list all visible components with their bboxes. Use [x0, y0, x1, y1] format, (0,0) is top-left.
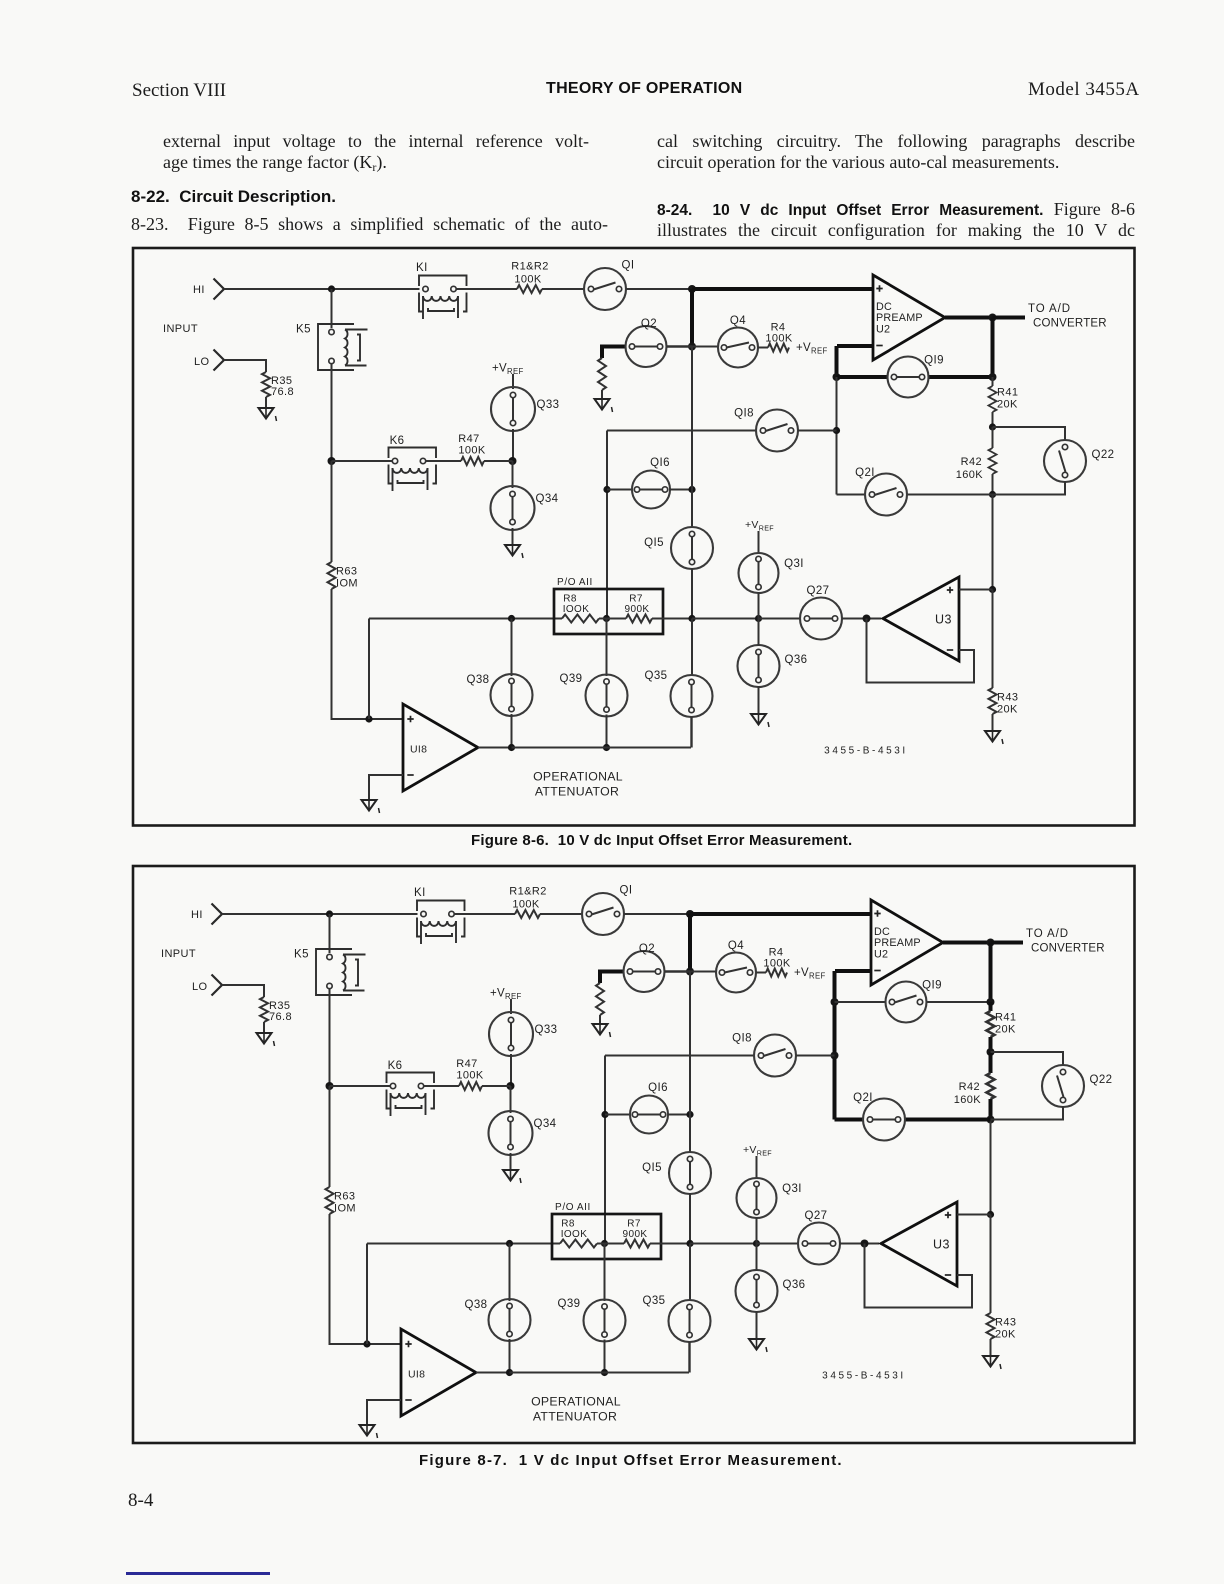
wire R47 to node — [484, 460, 513, 462]
wire R41 to node — [989, 1037, 993, 1052]
svg-text:R1&R2: R1&R2 — [511, 261, 548, 273]
resistor R1&R2 100K — [509, 886, 546, 919]
wire R1R2 to Q1 — [540, 913, 582, 915]
ground below Q2 — [595, 399, 613, 412]
wire Q19 to rail thin — [927, 1001, 991, 1003]
resistor R35 76.8 — [262, 372, 294, 398]
wire Q39 bottom — [606, 715, 608, 748]
wire Q22 top branch — [993, 427, 1066, 441]
svg-text:TO A/D: TO A/D — [1026, 928, 1069, 940]
svg-text:R41: R41 — [997, 387, 1018, 399]
wire VREF to Q33 — [510, 999, 512, 1014]
wire Q31 to line — [756, 1217, 758, 1244]
svg-text:100K: 100K — [456, 1070, 484, 1082]
junction R8/R7/Q39 — [603, 615, 610, 622]
junction Q2/Q4 — [686, 968, 694, 976]
svg-text:R63: R63 — [334, 1191, 355, 1203]
junction Q16 left — [603, 486, 610, 493]
svg-text:KI: KI — [414, 887, 426, 899]
wire rail Q19 to R41 — [989, 1002, 993, 1011]
wire Q38 bottom — [509, 1339, 511, 1373]
svg-text:Q38: Q38 — [465, 1299, 488, 1311]
svg-text:R8: R8 — [561, 1219, 575, 1230]
svg-text:IOOK: IOOK — [561, 1229, 588, 1240]
resistor R41 20K — [987, 1011, 1017, 1037]
net +VREF above Q33 — [490, 988, 522, 1002]
wire Q2 ground stub — [602, 347, 626, 359]
junction R47/Q33/Q34 — [509, 457, 517, 465]
wire bold down to Q2/Q4 row — [690, 289, 694, 347]
junction Q38 top — [508, 615, 515, 622]
svg-text:+VREF: +VREF — [794, 967, 826, 981]
junction K5/K6/R63 — [328, 457, 336, 465]
wire rail to U3 plus — [990, 1120, 992, 1215]
transistor switch Q34 — [489, 1111, 557, 1155]
junction HI rail — [686, 910, 694, 918]
wire x607 vertical — [604, 1056, 606, 1244]
svg-text:OPERATIONAL: OPERATIONAL — [531, 1395, 621, 1409]
svg-text:U2: U2 — [874, 949, 888, 961]
transistor switch Q27 — [798, 1210, 840, 1265]
svg-text:P/O AII: P/O AII — [557, 577, 593, 588]
wire Q16 right — [670, 489, 692, 491]
junction x836 Q18 — [833, 427, 840, 434]
transistor switch Q18 — [732, 1033, 796, 1077]
transistor switch Q31 — [737, 1178, 802, 1218]
junction U3 output — [861, 1240, 869, 1248]
transistor switch Q18 — [734, 408, 798, 452]
resistor below Q2 — [596, 983, 604, 1015]
svg-text:100K: 100K — [458, 445, 486, 457]
svg-text:R7: R7 — [627, 1219, 641, 1230]
junction Q16/Q15 — [686, 1111, 693, 1118]
wire bold to Q19 — [837, 375, 889, 379]
node INPUT label — [161, 948, 196, 960]
wire Q22 bottom branch — [993, 481, 1066, 495]
svg-text:Q27: Q27 — [807, 585, 830, 597]
wire K1 to R1R2 — [457, 288, 518, 290]
wire Q35 top — [691, 619, 693, 676]
ground at R35 — [257, 1033, 275, 1046]
wire K5 bottom to K6 node — [331, 364, 333, 461]
wire U3 feedback — [867, 619, 975, 683]
svg-text:QI6: QI6 — [648, 1082, 668, 1094]
net TO A/D CONVERTER — [1028, 303, 1107, 330]
wire x607 vertical — [606, 431, 608, 619]
transistor switch Q16 — [632, 457, 670, 509]
resistor R35 76.8 — [260, 997, 292, 1023]
svg-text:ATTENUATOR: ATTENUATOR — [535, 785, 619, 799]
op-amp U3 — [881, 1202, 957, 1286]
wire Q16 right — [668, 1114, 690, 1116]
relay K6 — [387, 1060, 435, 1116]
junction R41/Q22 — [987, 1048, 995, 1056]
wire attenuator line left — [369, 618, 562, 620]
wire Q38 top — [511, 619, 513, 677]
wire R43 to ground — [990, 1339, 992, 1356]
transistor switch Q39 — [558, 1298, 626, 1342]
svg-text:QI9: QI9 — [924, 355, 944, 367]
net +VREF above Q31 — [743, 1144, 772, 1158]
wire rail to R43 — [990, 1215, 992, 1314]
wire Q36 top — [758, 619, 760, 647]
junction R42/Q21/Q22 — [989, 491, 996, 498]
label drawing number — [824, 746, 908, 757]
transistor switch Q36 — [736, 1270, 806, 1312]
svg-text:INPUT: INPUT — [161, 948, 196, 960]
svg-text:Q36: Q36 — [785, 654, 808, 666]
wire K1 to R1R2 — [455, 913, 516, 915]
transistor switch Q31 — [739, 553, 804, 593]
junction Q31/Q36 — [753, 1240, 760, 1247]
svg-text:K6: K6 — [388, 1060, 403, 1072]
junction HI/K5 — [326, 910, 333, 917]
resistor R63 10M — [328, 562, 358, 590]
wire U18 minus to ground — [367, 1400, 401, 1425]
wire Q2 to junction — [665, 970, 691, 973]
svg-text:PREAMP: PREAMP — [876, 312, 923, 324]
wire K6 row left — [332, 460, 393, 462]
wire Q19 row thin — [835, 1001, 887, 1003]
relay K5 — [294, 949, 366, 996]
wire to ground below Q2 — [599, 1015, 601, 1024]
wire Q18 to x836 — [796, 1055, 835, 1057]
wire bold U2 minus elbow — [835, 346, 839, 377]
svg-text:TO A/D: TO A/D — [1028, 303, 1071, 315]
ground at R43 — [983, 1356, 1001, 1369]
wire bold to U2 plus input — [692, 287, 873, 291]
svg-text:Q22: Q22 — [1092, 449, 1115, 461]
svg-text:Q2: Q2 — [641, 318, 657, 330]
svg-text:P/O AII: P/O AII — [555, 1202, 591, 1213]
wire K5 top — [331, 289, 333, 328]
wire Q4 to R4 — [756, 972, 766, 974]
svg-text:100K: 100K — [512, 899, 540, 911]
wire U18 output — [478, 747, 512, 749]
wire Q36 to ground — [758, 686, 760, 714]
wire attenuator to Q31 node — [690, 1243, 757, 1245]
wire Q39 top — [604, 1244, 606, 1302]
op-amp U2 DC PREAMP — [871, 900, 943, 985]
svg-text:K5: K5 — [294, 949, 309, 961]
svg-text:R41: R41 — [995, 1012, 1016, 1024]
wire U18 output — [476, 1372, 510, 1374]
junction Q16 left — [601, 1111, 608, 1118]
wire bold down to Q2/Q4 row — [688, 914, 692, 972]
svg-text:R43: R43 — [995, 1317, 1016, 1329]
wire Q15 to attenuator line — [691, 568, 693, 619]
svg-text:KI: KI — [416, 262, 428, 274]
wire Q22 top branch — [991, 1052, 1064, 1066]
transistor switch Q35 — [645, 670, 713, 717]
wire Q2 ground stub — [600, 972, 624, 984]
transistor switch Q2 — [626, 318, 667, 367]
transistor switch Q1 — [582, 885, 632, 936]
svg-text:U3: U3 — [933, 1238, 950, 1252]
svg-text:R42: R42 — [961, 456, 982, 468]
wire Q31 to line — [758, 592, 760, 619]
resistor R4 100K — [763, 947, 791, 977]
resistor R42 160K — [954, 1073, 995, 1106]
svg-text:+VREF: +VREF — [796, 342, 828, 356]
transistor switch Q4 — [718, 315, 758, 368]
wire node to Q34 — [512, 461, 514, 488]
svg-text:K5: K5 — [296, 324, 311, 336]
junction R41/Q22 — [989, 423, 996, 430]
junction x836 Q21 corner — [833, 1118, 835, 1120]
wire U2 output — [945, 316, 993, 320]
svg-text:Q4: Q4 — [730, 315, 746, 327]
junction Q16/Q15 — [688, 486, 695, 493]
wire bold Q19 to rail — [929, 375, 993, 379]
svg-text:Q27: Q27 — [805, 1210, 828, 1222]
svg-text:IOM: IOM — [334, 1203, 356, 1215]
junction R8/R7/Q39 — [601, 1240, 608, 1247]
ground below Q36 — [749, 1339, 767, 1352]
junction attenuator/Q15/Q35 — [686, 1240, 693, 1247]
transistor switch Q34 — [491, 486, 559, 530]
svg-text:100K: 100K — [763, 958, 791, 970]
net +VREF above Q33 — [492, 363, 524, 377]
svg-text:K6: K6 — [390, 435, 405, 447]
wire Q18 row left — [605, 1055, 754, 1057]
svg-text:Q35: Q35 — [645, 670, 668, 682]
transistor switch Q16 — [630, 1082, 668, 1134]
svg-text:Q35: Q35 — [643, 1295, 666, 1307]
wire Q21 row left — [837, 494, 866, 496]
svg-text:QI: QI — [620, 885, 633, 897]
transistor switch Q27 — [800, 585, 842, 640]
wire R63 to U18 plus — [330, 1214, 402, 1344]
node INPUT label — [163, 323, 198, 335]
junction Q39 output — [603, 744, 610, 751]
junction U2 output — [989, 314, 997, 322]
svg-text:Q33: Q33 — [535, 1024, 558, 1036]
ground at R35 — [259, 408, 277, 421]
wire R1R2 to Q1 — [542, 288, 584, 290]
label OPERATIONAL ATTENUATOR — [531, 1395, 621, 1424]
wire rail Q19 to R41 — [992, 377, 994, 386]
wire R41 to node — [992, 412, 994, 427]
wire U2 minus input — [835, 969, 871, 973]
svg-text:QI5: QI5 — [642, 1162, 662, 1174]
svg-text:OPERATIONAL: OPERATIONAL — [533, 770, 623, 784]
transistor switch Q15 — [644, 527, 713, 569]
wire R35 to ground — [265, 397, 267, 408]
svg-text:QI8: QI8 — [732, 1033, 752, 1045]
wire output to A/D — [991, 941, 1024, 945]
node LO input terminal — [192, 975, 222, 996]
wire to ground below Q2 — [601, 390, 603, 399]
svg-text:76.8: 76.8 — [269, 1011, 292, 1023]
wire to Q27 — [757, 1243, 799, 1245]
net +VREF at R4 — [794, 967, 826, 981]
wire R35 to ground — [263, 1022, 265, 1033]
svg-text:Q33: Q33 — [537, 399, 560, 411]
wire to Q15 — [691, 490, 693, 529]
wire node to Q34 — [510, 1086, 512, 1113]
junction R47/Q33/Q34 — [507, 1082, 515, 1090]
svg-text:R1&R2: R1&R2 — [509, 886, 546, 898]
ground at U18 — [360, 1425, 378, 1438]
ground below Q34 — [505, 545, 523, 558]
junction attenuator/Q15/Q35 — [688, 615, 695, 622]
transistor switch Q2 — [624, 943, 665, 992]
node LO input terminal — [194, 350, 224, 371]
wire junction to Q4 — [692, 346, 718, 348]
wire Q21 row right — [907, 494, 993, 496]
svg-text:IOOK: IOOK — [563, 604, 590, 615]
svg-text:20K: 20K — [997, 399, 1018, 411]
junction HI/K5 — [328, 285, 335, 292]
svg-text:100K: 100K — [765, 333, 793, 345]
svg-text:UI8: UI8 — [408, 1369, 425, 1381]
svg-text:Q2: Q2 — [639, 943, 655, 955]
svg-text:+VREF: +VREF — [743, 1144, 772, 1158]
junction R42/Q21/Q22 — [987, 1116, 995, 1124]
svg-text:QI8: QI8 — [734, 408, 754, 420]
wire junction to Q4 — [690, 971, 716, 973]
net +VREF at R4 — [796, 342, 828, 356]
module P/O A11 box — [554, 577, 663, 634]
resistor R43 20K — [989, 688, 1019, 716]
junction Q38 top — [506, 1240, 513, 1247]
svg-text:LO: LO — [194, 356, 210, 368]
wire K5 top — [329, 914, 331, 953]
resistor R63 10M — [326, 1187, 356, 1215]
wire K6 row left — [330, 1085, 391, 1087]
wire Q1 to node — [624, 913, 690, 915]
op-amp U2 DC PREAMP — [873, 275, 945, 360]
wire U2 output — [943, 941, 991, 945]
svg-text:900K: 900K — [623, 1229, 648, 1240]
node HI input terminal — [193, 279, 224, 300]
ground below Q36 — [751, 714, 769, 727]
wire U3 plus to rail — [957, 1214, 991, 1216]
svg-text:Q3I: Q3I — [784, 558, 804, 570]
junction attenuator tap — [365, 715, 372, 722]
op-amp U18 — [401, 1329, 476, 1416]
wire attenuator tap vertical — [368, 619, 370, 720]
transistor switch Q35 — [643, 1295, 711, 1342]
svg-text:3455-B-453I: 3455-B-453I — [824, 746, 908, 757]
svg-text:Q4: Q4 — [728, 940, 744, 952]
ground below Q2 — [593, 1024, 611, 1037]
wire Q39 bottom — [604, 1340, 606, 1373]
wire bold Q21 row right — [905, 1118, 991, 1122]
ground at R43 — [985, 731, 1003, 744]
svg-text:20K: 20K — [997, 704, 1018, 716]
wire U18 minus to ground — [369, 775, 403, 800]
resistor R42 160K — [956, 448, 997, 481]
module P/O A11 box — [552, 1202, 661, 1259]
junction Q2/Q4 — [688, 343, 696, 351]
op-amp U3 — [883, 577, 959, 661]
wire bold Q21 row left — [835, 1118, 864, 1122]
svg-text:Q22: Q22 — [1090, 1074, 1113, 1086]
svg-text:Q39: Q39 — [560, 673, 583, 685]
op-amp U18 — [403, 704, 478, 791]
wire node to R42 — [989, 1052, 993, 1073]
resistor R4 100K — [765, 322, 793, 352]
node HI input terminal — [191, 904, 222, 925]
junction Q38 output — [506, 1369, 513, 1376]
junction rail Q19 — [989, 373, 997, 381]
wire center rail down — [691, 347, 693, 490]
svg-text:QI9: QI9 — [922, 980, 942, 992]
net +VREF above Q31 — [745, 519, 774, 533]
wire R43 to ground — [992, 714, 994, 731]
wire attenuator tap vertical — [366, 1244, 368, 1345]
relay K1 — [414, 887, 465, 944]
wire U3 feedback — [865, 1244, 973, 1308]
wire Q36 top — [756, 1244, 758, 1272]
wire Q34 to ground — [512, 528, 514, 545]
wire Q35 bottom — [690, 717, 692, 748]
wire R7 to Q15 node — [650, 1243, 690, 1245]
wire Q38 bottom — [511, 714, 513, 748]
transistor switch Q21 — [853, 1092, 905, 1141]
junction rail Q19 — [987, 998, 995, 1006]
transistor switch Q1 — [584, 260, 634, 311]
wire to Q15 — [689, 1115, 691, 1154]
svg-text:Q36: Q36 — [783, 1279, 806, 1291]
junction Q39 output — [601, 1369, 608, 1376]
wire output line — [512, 747, 692, 749]
wire Q35 bottom — [688, 1342, 690, 1373]
wire Q36 to ground — [756, 1311, 758, 1339]
junction Q38 output — [508, 744, 515, 751]
wire U3 plus to rail — [959, 589, 993, 591]
wire Q18 row left — [607, 430, 756, 432]
junction attenuator tap — [363, 1340, 370, 1347]
transistor switch Q39 — [560, 673, 628, 717]
junction Q31/Q36 — [755, 615, 762, 622]
ground below Q34 — [503, 1170, 521, 1183]
svg-text:+VREF: +VREF — [490, 988, 522, 1002]
resistor R47 100K — [458, 433, 486, 465]
relay K6 — [389, 435, 437, 491]
svg-text:Q3I: Q3I — [782, 1183, 802, 1195]
svg-text:HI: HI — [191, 909, 203, 921]
junction Q19 left — [831, 998, 839, 1006]
transistor switch Q22 — [1044, 440, 1114, 482]
wire Q27 to U3 — [840, 1243, 879, 1245]
wire VREF to Q33 — [512, 374, 514, 389]
svg-text:Q38: Q38 — [467, 674, 490, 686]
transistor switch Q36 — [738, 645, 808, 687]
svg-text:+VREF: +VREF — [745, 519, 774, 533]
wire Q18 to x836 — [798, 430, 837, 432]
net TO A/D CONVERTER — [1026, 928, 1105, 955]
svg-text:3455-B-453I: 3455-B-453I — [822, 1371, 906, 1382]
wire R8 R7 link — [597, 1243, 624, 1245]
svg-text:ATTENUATOR: ATTENUATOR — [533, 1410, 617, 1424]
svg-text:Q34: Q34 — [534, 1118, 557, 1130]
transistor switch Q22 — [1042, 1065, 1112, 1107]
svg-text:Q2I: Q2I — [855, 467, 875, 479]
svg-text:Q2I: Q2I — [853, 1092, 873, 1104]
wire R8 R7 link — [599, 618, 626, 620]
resistor R41 20K — [989, 386, 1019, 412]
wire x836 vertical — [836, 377, 838, 431]
junction U3 plus — [987, 1211, 994, 1218]
relay K1 — [416, 262, 467, 319]
wire attenuator line left — [367, 1243, 560, 1245]
wire K6 to R47 — [424, 1085, 459, 1087]
junction x836 Q18 — [831, 1052, 839, 1060]
svg-text:20K: 20K — [995, 1024, 1016, 1036]
